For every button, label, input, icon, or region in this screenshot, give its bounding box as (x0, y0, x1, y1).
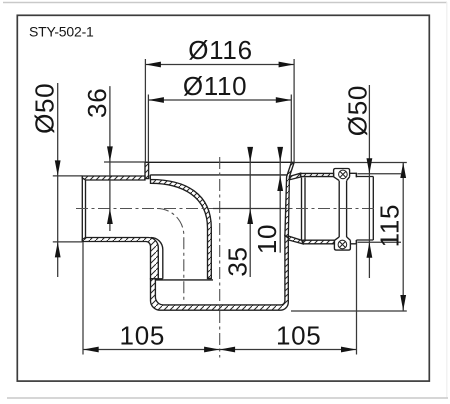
outlet pipe end face (372, 177, 374, 241)
flange top surface (145, 161, 294, 163)
body right wall upper band (285, 163, 294, 238)
105 left ext (82, 242, 84, 355)
115 ext top (294, 162, 407, 164)
elbow bend centerline (157, 209, 184, 301)
flange left wall (145, 162, 149, 178)
inlet pipe bottom wall + corner into sump band (82, 238, 158, 279)
dia110 arrows (148, 97, 164, 103)
dimension texts (30, 35, 405, 350)
outlet tube inner-left surface (151, 238, 163, 279)
elbow outlet end rim (155, 279, 213, 280)
svg-text:105: 105 (120, 320, 165, 350)
socket rim face (355, 173, 357, 177)
inlet pipe mouth inner rim (85, 180, 87, 238)
socket flare bottom (288, 236, 303, 244)
10 dim line (279, 147, 281, 253)
svg-text:35: 35 (222, 246, 252, 276)
36 tick (104, 161, 145, 163)
dia50 right dim line (368, 85, 370, 278)
105 dim line (83, 349, 356, 351)
socket bottom wall (303, 240, 334, 244)
ext line dia110 right (290, 95, 292, 163)
svg-text:115: 115 (375, 204, 405, 248)
horizontal pipe centerline (76, 208, 377, 210)
outlet pipe top line (356, 176, 373, 178)
dia116 arrows (145, 62, 161, 68)
ext line dia116 right (293, 59, 295, 163)
elbow outer wall band (151, 180, 212, 279)
flange inner ledge (150, 175, 287, 179)
o-ring gasket top (339, 170, 348, 179)
outlet pipe bottom line (356, 239, 373, 241)
socket stop ridge lines (302, 178, 306, 241)
dia50 right ext top (358, 173, 402, 175)
105 right ext (356, 244, 358, 355)
ext line dia110 left (147, 95, 149, 163)
svg-text:Ø50: Ø50 (343, 85, 373, 136)
sump lower-left wall + bottom + right wall band (151, 236, 289, 311)
115 dim line (402, 163, 404, 311)
socket top wall (301, 173, 334, 176)
115 arrows (400, 163, 406, 179)
page bottom rule (7, 397, 448, 399)
dia50 right arrows (367, 158, 373, 174)
o-ring housing bottom (334, 237, 356, 250)
dia50 left arrows (55, 160, 61, 176)
dia50 left dim line (57, 83, 59, 277)
10 arrows (277, 147, 283, 163)
36 arrows (107, 146, 113, 162)
35 arrows (247, 147, 253, 163)
115 ext bottom (291, 310, 407, 312)
dia50 right ext bottom (358, 241, 402, 243)
o-ring gasket bottom (338, 240, 347, 249)
36 dim line (109, 86, 111, 231)
socket flare top (290, 173, 301, 179)
35 target line (213, 208, 288, 210)
inlet pipe top wall (82, 176, 145, 180)
svg-text:36: 36 (82, 88, 112, 118)
page top rule (3, 2, 447, 4)
o-ring housing top (334, 169, 357, 181)
ext line dia116 left (144, 59, 146, 162)
35 dim line (249, 147, 251, 277)
svg-text:Ø110: Ø110 (183, 71, 247, 101)
o-ring groove seen through (339, 181, 346, 237)
page right faint rule (446, 2, 448, 398)
svg-text:Ø50: Ø50 (30, 83, 60, 134)
svg-text:Ø116: Ø116 (188, 35, 252, 65)
dim line dia116 (145, 64, 294, 66)
arrowheads (55, 62, 406, 353)
inlet pipe mouth face (81, 176, 83, 242)
vertical body centerline (219, 157, 221, 358)
dia50 left ext bottom (53, 241, 83, 243)
105 arrows (83, 347, 99, 353)
svg-text:105: 105 (276, 320, 321, 350)
svg-text:10: 10 (252, 224, 282, 254)
dia50 left ext top (53, 175, 83, 177)
dim line dia110 (148, 99, 291, 101)
svg-text:STY-502-1: STY-502-1 (29, 24, 94, 40)
